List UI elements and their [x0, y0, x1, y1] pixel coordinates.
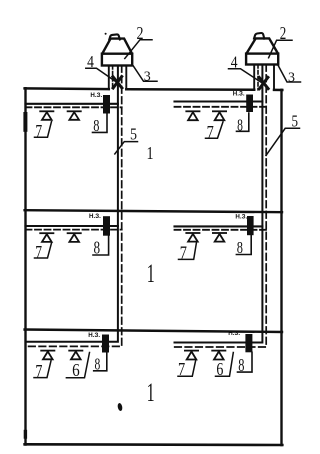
floor divider 2 [25, 330, 282, 333]
fan deflector right: body U2 [246, 54, 278, 65]
wall left [24, 88, 26, 444]
duct left: outer wall right [125, 66, 127, 90]
riser right solid (continues to floor 3 elbow) [175, 65, 263, 343]
sprinkler L3b [69, 351, 82, 360]
svg-text:8: 8 [238, 355, 244, 375]
sprinkler L1b [68, 111, 81, 120]
valve X on left duct [113, 77, 122, 88]
pipe floor2 right dashed [175, 229, 267, 231]
fan deflector right: cap [254, 33, 264, 39]
svg-text:7: 7 [178, 359, 185, 379]
pipe floor2 left solid [26, 225, 118, 227]
pipe floor2 left dashed [26, 229, 122, 231]
fan deflector left: body U1 [102, 54, 132, 66]
leader 8 R2 [236, 235, 251, 254]
svg-text:1: 1 [147, 143, 154, 163]
sprinkler L1a [40, 111, 53, 120]
riser left solid (duct center continuing to floor 3 elbow) [26, 66, 118, 342]
leader label 4 left [86, 68, 117, 82]
duct right: outer wall right [273, 65, 275, 90]
riser left dashed [26, 66, 122, 347]
valve NZ L1 [103, 95, 110, 114]
svg-text:4: 4 [231, 53, 238, 72]
leader label 5 left [115, 142, 138, 154]
leader label 2 left [125, 40, 152, 59]
pipe floor1 right solid [175, 100, 263, 102]
svg-text:8: 8 [94, 238, 101, 258]
svg-text:8: 8 [237, 238, 243, 257]
leader 7 L3 [34, 361, 51, 378]
svg-text:Н.З.: Н.З. [88, 332, 100, 339]
leader 8 R1 [237, 113, 249, 131]
leader 7 R2 [179, 241, 197, 260]
valve NZ L3 [102, 335, 109, 353]
leader 6 L3 [66, 353, 89, 378]
roof line right segment [274, 89, 282, 92]
leader 8 L1 [93, 114, 108, 133]
roof line middle segment [126, 88, 254, 91]
duct left: outer wall left [108, 66, 110, 90]
valve NZ R3 [245, 334, 252, 352]
svg-text:Н.З.: Н.З. [235, 214, 247, 221]
wall right [280, 90, 282, 445]
svg-text:5: 5 [130, 125, 137, 144]
valve NZ R1 [246, 95, 253, 113]
svg-text:7: 7 [35, 121, 42, 141]
valve NZ R2 [247, 216, 254, 235]
svg-text:3: 3 [288, 70, 295, 85]
leader 8 L3 [94, 353, 107, 371]
duct left: inner dashed left [112, 66, 114, 90]
leader 8 L2 [93, 236, 109, 255]
pipe floor1 left dashed [26, 106, 122, 108]
sprinkler R1a [186, 111, 199, 120]
svg-text:6: 6 [72, 360, 80, 380]
svg-text:5: 5 [292, 111, 299, 130]
leader 7 L1 [35, 122, 52, 138]
riser right dashed [175, 65, 267, 348]
leader 7 R3 [178, 360, 196, 376]
duct right: outer wall left [253, 65, 255, 90]
svg-text:7: 7 [35, 363, 42, 383]
svg-text:8: 8 [93, 116, 99, 135]
sprinkler R1b [213, 111, 226, 120]
svg-text:8: 8 [95, 355, 101, 374]
pipe floor1 right dashed [175, 106, 267, 108]
leader 7 L2 [35, 243, 52, 258]
svg-text:Н.З.: Н.З. [90, 92, 102, 99]
wall thick mark floor1 left [23, 114, 27, 130]
svg-text:4: 4 [87, 52, 94, 71]
svg-text:7: 7 [35, 242, 42, 262]
speck near left cap [105, 33, 107, 35]
leader label 5 right [266, 128, 300, 155]
sprinkler R3a [185, 351, 198, 360]
svg-text:1: 1 [147, 378, 155, 407]
sprinkler L3a [41, 351, 54, 360]
leader 8 R3 [238, 352, 253, 372]
svg-text:7: 7 [180, 243, 187, 263]
svg-text:3: 3 [144, 69, 151, 84]
roof line left segment [25, 87, 109, 90]
fan deflector left: cap [109, 34, 120, 39]
svg-text:Н.З.: Н.З. [228, 330, 240, 337]
fan deflector right: cone [247, 38, 278, 53]
sprinkler R3b [212, 351, 225, 360]
leader 6 R3 [216, 353, 234, 377]
sprinkler R2b [213, 233, 226, 242]
wall thick mark bottom left [24, 432, 27, 438]
svg-text:2: 2 [280, 23, 287, 43]
svg-text:Н.З.: Н.З. [233, 91, 245, 98]
pipe floor2 right solid [175, 225, 263, 227]
floor divider 1 [25, 210, 282, 212]
svg-text:Н.З.: Н.З. [89, 213, 101, 220]
svg-text:8: 8 [237, 116, 243, 135]
svg-text:6: 6 [216, 359, 223, 379]
pipe floor1 left solid [26, 103, 118, 105]
svg-text:2: 2 [137, 23, 144, 43]
leader label 2 right [269, 40, 292, 58]
duct right: inner dashed left [257, 65, 259, 90]
svg-text:1: 1 [147, 259, 155, 288]
sprinkler L2a [40, 233, 53, 242]
sprinkler R2a [186, 233, 199, 242]
fan deflector left: cone [103, 39, 132, 54]
ink blob floor3 [117, 403, 123, 412]
svg-text:7: 7 [207, 122, 214, 142]
sprinkler L2b [68, 233, 81, 242]
floor bottom line [25, 443, 283, 446]
valve NZ L2 [103, 216, 110, 236]
leader label 3 left [133, 66, 157, 82]
leader label 3 right [278, 66, 300, 83]
valve X on right duct [259, 77, 268, 88]
leader label 4 right [229, 69, 264, 84]
leader 7 R1 [206, 122, 224, 138]
